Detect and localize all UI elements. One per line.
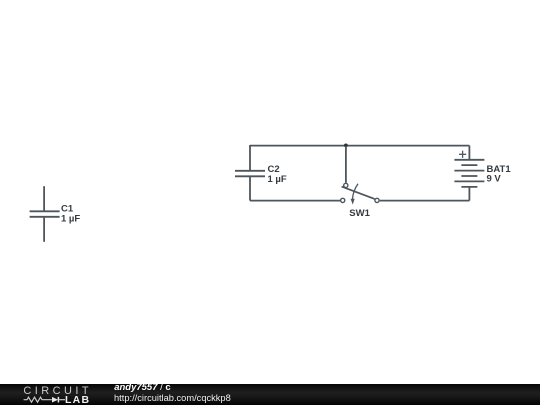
svg-text:9 V: 9 V [487, 174, 502, 185]
logo diode [52, 397, 58, 403]
logo word LAB [65, 395, 90, 406]
capacitor C1 [30, 186, 60, 242]
svg-text:1 µF: 1 µF [61, 214, 80, 225]
footer bar [0, 384, 540, 405]
wire bottom left [250, 200, 340, 202]
logo word CIRCUIT [23, 386, 92, 397]
capacitor C2 [235, 145, 265, 201]
battery plus sign [459, 151, 466, 158]
footer url text [114, 393, 231, 403]
wire top net [250, 145, 469, 147]
svg-text:1 µF: 1 µF [268, 174, 287, 185]
battery BAT1 [454, 146, 484, 201]
switch SW1 [341, 146, 380, 205]
svg-text:SW1: SW1 [349, 208, 370, 219]
junction node [344, 144, 348, 148]
footer author text [114, 383, 171, 393]
logo resistor [24, 397, 52, 402]
wire bottom right [380, 200, 470, 202]
